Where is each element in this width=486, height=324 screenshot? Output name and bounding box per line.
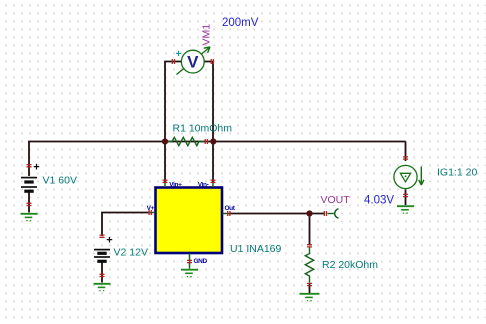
wire: V2 negative to ground (101, 261, 103, 283)
current source IG1 (394, 157, 424, 197)
wire: left R1 node up to voltmeter (165, 62, 182, 142)
ground below V1 (21, 214, 38, 221)
svg-text:VM1: VM1 (201, 24, 213, 46)
battery V1 (21, 162, 40, 206)
resistor R1 (168, 137, 204, 145)
svg-text:R1 10mOhm: R1 10mOhm (173, 123, 233, 135)
node: VOUT junction (306, 210, 312, 216)
wire: VOUT node down to R2 (309, 214, 311, 246)
svg-text:Vin+: Vin+ (169, 181, 182, 188)
wire: IG1 to ground (405, 190, 407, 206)
voltmeter VM1 (172, 47, 213, 75)
ground below R2 (300, 294, 320, 301)
svg-text:4.03V: 4.03V (364, 195, 394, 207)
wire: voltmeter to right R1 node (205, 62, 214, 142)
svg-text:GND: GND (194, 258, 208, 265)
battery V2 (94, 235, 113, 277)
node: left terminal of R1 (162, 138, 168, 144)
svg-text:V: V (187, 53, 199, 72)
ground below V2 (94, 284, 111, 291)
wire: top rail (28, 141, 405, 143)
svg-text:+: + (176, 49, 182, 60)
svg-text:R2 20kOhm: R2 20kOhm (322, 259, 378, 271)
svg-text:Out: Out (225, 205, 236, 212)
svg-text:+: + (106, 235, 112, 247)
node: right terminal of R1 (210, 138, 216, 144)
svg-text:+: + (33, 162, 39, 174)
output terminal VOUT (324, 209, 338, 218)
svg-text:V2 12V: V2 12V (114, 247, 148, 259)
svg-text:U1 INA169: U1 INA169 (230, 243, 282, 255)
wire: left R1 node down to Vin+ pin (164, 142, 166, 183)
op-amp U1 INA169 (149, 180, 230, 268)
svg-text:V1 60V: V1 60V (43, 175, 77, 187)
svg-text:IG1:1 20: IG1:1 20 (437, 167, 477, 179)
resistor R2 (305, 245, 313, 286)
wire: V1 positive to top rail (28, 142, 30, 177)
wire: R2 to ground (309, 284, 311, 294)
svg-text:Vin-: Vin- (198, 181, 209, 188)
wire: V1 negative to ground (28, 192, 30, 213)
svg-text:200mV: 200mV (222, 17, 259, 29)
ground below IG1 (397, 206, 414, 213)
svg-text:VOUT: VOUT (321, 194, 351, 206)
wire: U1 Out to VOUT net (229, 213, 325, 215)
wire: top rail to IG1 (405, 142, 407, 162)
wire: right R1 node down to Vin- pin (212, 142, 214, 183)
svg-text:V+: V+ (147, 205, 155, 212)
wire: V2 positive to U1 V+ pin (102, 213, 149, 237)
ground below U1 (181, 270, 198, 277)
